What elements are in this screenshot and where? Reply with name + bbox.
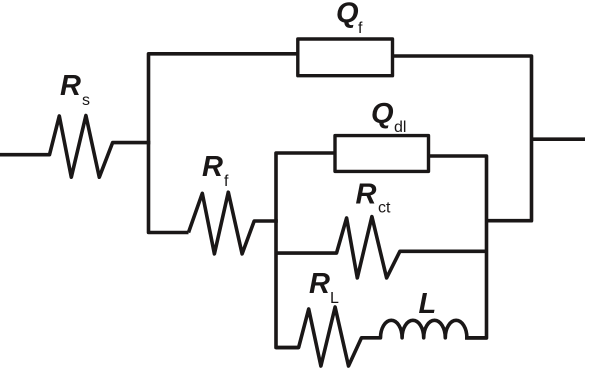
svg-text:s: s <box>82 92 90 109</box>
svg-text:L: L <box>330 290 339 307</box>
svg-text:f: f <box>224 173 229 190</box>
svg-text:f: f <box>358 20 363 37</box>
svg-text:ct: ct <box>378 200 391 217</box>
svg-text:Q: Q <box>371 98 394 130</box>
svg-text:L: L <box>419 288 437 320</box>
svg-text:R: R <box>202 151 223 183</box>
svg-text:R: R <box>309 268 330 300</box>
svg-text:R: R <box>60 70 81 102</box>
svg-text:Q: Q <box>336 0 359 29</box>
svg-text:dl: dl <box>394 119 406 136</box>
svg-text:R: R <box>356 179 377 211</box>
